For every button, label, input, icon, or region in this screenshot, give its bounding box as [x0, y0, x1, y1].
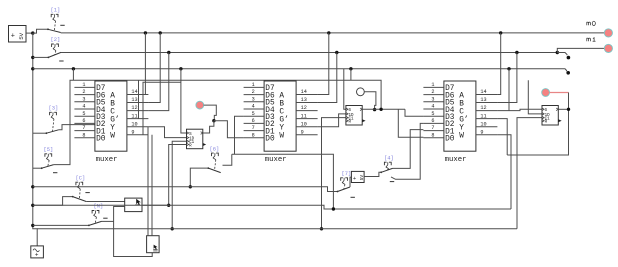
bus control-187: [33, 187, 338, 192]
node LED2-FF2Q: [373, 108, 376, 111]
wire B3 stub to B4: [72, 69, 74, 80]
wire FF4 pin2 to loop: [114, 207, 153, 257]
svg-text:D0: D0: [445, 136, 455, 144]
wire FF2 C1 from clock: [322, 118, 346, 229]
wire mux2 Y to FF2 1D: [318, 114, 346, 127]
svg-text:[4]: [4]: [384, 155, 394, 161]
wire battery V1 output: [26, 32, 33, 34]
svg-text:7: 7: [431, 125, 434, 131]
wire mux3 B to B2: [497, 53, 517, 103]
D-latch FF1: [187, 129, 207, 149]
svg-text:C: C: [279, 108, 284, 116]
node B3 open contact: [566, 71, 570, 75]
node trunk-bus187: [31, 185, 34, 188]
switch [N]: [88, 204, 108, 227]
svg-text:[6]: [6]: [210, 146, 220, 152]
bus W output: [33, 205, 511, 209]
node LED1-FF1Q: [212, 119, 215, 122]
node B2-m1 tap: [556, 51, 559, 54]
node Wbus-jog: [332, 207, 335, 210]
node B2-mux3B: [515, 51, 518, 54]
wire switch3 to mux1 D2: [59, 125, 95, 130]
node B3-mux3C: [507, 67, 510, 70]
multiplexer U1 (muxer): [74, 81, 148, 164]
svg-text:4: 4: [252, 104, 255, 110]
bus B2: [61, 52, 557, 54]
svg-text:Y: Y: [279, 125, 284, 133]
switch [5]: [41, 147, 58, 173]
node trunk-switch2: [31, 56, 34, 59]
wire FF4 output to W-bus: [142, 204, 169, 206]
svg-text:[C]: [C]: [76, 175, 86, 181]
wire FF2 Q to mux3 D0: [398, 109, 423, 137]
svg-text:11: 11: [301, 113, 307, 119]
multiplexer U3 (muxer): [423, 81, 497, 164]
node B3-x351: [349, 67, 352, 70]
svg-text:W: W: [279, 133, 284, 141]
node clock-FF2: [320, 227, 323, 230]
svg-text:5: 5: [431, 111, 434, 117]
wire mux3 A to B1: [497, 33, 500, 95]
svg-text:D0: D0: [96, 136, 106, 144]
node B3-FF1S: [179, 67, 182, 70]
svg-text:W: W: [459, 133, 464, 141]
svg-text:8: 8: [82, 132, 85, 138]
switch [C]: [72, 175, 90, 201]
battery V2 +5V: [351, 171, 364, 182]
svg-text:3: 3: [82, 96, 85, 102]
svg-text:5: 5: [82, 111, 85, 117]
svg-text:9: 9: [480, 129, 483, 135]
svg-text:B: B: [279, 100, 284, 108]
svg-text:B: B: [110, 100, 115, 108]
wire switch1 input jog: [33, 29, 48, 33]
wire mux1 G' from B4: [138, 80, 140, 118]
wire battery V2 to switch4: [364, 172, 381, 176]
svg-text:[2]: [2]: [51, 37, 61, 43]
wire mux2 D3 riser: [235, 116, 244, 154]
svg-text:C: C: [459, 108, 464, 116]
svg-text:+: +: [11, 32, 15, 40]
svg-text:1: 1: [252, 82, 255, 88]
LED probe LED2 (off): [357, 88, 365, 96]
svg-text:2: 2: [82, 89, 85, 95]
wire mux3 C to FF3 S: [497, 109, 542, 110]
node V1 junction: [31, 31, 34, 34]
node FF3Q: [567, 108, 570, 111]
svg-text:11: 11: [480, 113, 486, 119]
svg-text:W: W: [110, 133, 115, 141]
svg-text:5V: 5V: [359, 175, 365, 181]
node B1-mux1A: [144, 31, 147, 34]
LED probe LED1 (on): [196, 101, 204, 109]
svg-text:muxer: muxer: [96, 156, 118, 164]
wire FF3 1D riser: [528, 80, 542, 114]
svg-text:11: 11: [131, 113, 137, 119]
bus clock: [37, 228, 517, 230]
wire LED1 to FF1 Q node: [204, 105, 217, 121]
svg-text:2: 2: [431, 89, 434, 95]
svg-text:Y: Y: [110, 125, 115, 133]
node bus187-switch6: [189, 185, 192, 188]
output pin m0: [604, 29, 612, 37]
svg-text:10: 10: [131, 121, 137, 127]
open switch m1 contact: [557, 53, 567, 56]
wire mux1 Y to FF5: [147, 127, 149, 236]
svg-text:+: +: [35, 252, 39, 259]
svg-text:A: A: [459, 92, 464, 100]
clock source CLK: [31, 246, 44, 259]
svg-text:1: 1: [431, 82, 434, 88]
wire switch3 input: [33, 132, 47, 134]
wire FF2 Q line: [362, 108, 405, 110]
svg-text:10: 10: [480, 121, 486, 127]
svg-text:8: 8: [431, 132, 434, 138]
wire LED3 to FF3 (high): [550, 92, 569, 94]
wire mux3 D3 tap: [405, 109, 423, 116]
wire mux1 B to B1: [148, 33, 160, 103]
node trunk-bus205: [31, 204, 34, 207]
svg-text:3: 3: [431, 96, 434, 102]
svg-text:4: 4: [82, 104, 85, 110]
svg-text:13: 13: [131, 97, 137, 103]
switch [2]: [48, 37, 64, 61]
node trunk-bus225: [31, 224, 34, 227]
svg-text:muxer: muxer: [445, 156, 467, 164]
wire switch6 throw riser: [223, 154, 232, 165]
wire switch C to FF4: [86, 201, 125, 203]
svg-text:12: 12: [301, 105, 307, 111]
switch [7]: [337, 171, 355, 197]
wire mux3 C riser to B3: [508, 69, 510, 111]
wire switch7 to battery V2: [350, 177, 351, 187]
bus B1 (m0 select): [61, 32, 605, 34]
wire FF2 S from B3: [344, 69, 346, 110]
svg-text:3: 3: [252, 96, 255, 102]
wire FF3 C1 from clock: [517, 118, 542, 229]
svg-text:5V: 5V: [18, 32, 25, 39]
wire FF1 S from B3: [181, 69, 187, 133]
svg-text:12: 12: [480, 105, 486, 111]
svg-text:13: 13: [480, 97, 486, 103]
wire FF3 Q vertical: [507, 93, 568, 156]
node clock-FF1: [171, 227, 174, 230]
svg-text:[1]: [1]: [51, 8, 61, 14]
label m1: [587, 38, 596, 42]
svg-text:A: A: [279, 92, 284, 100]
wire mux2 B to B2: [318, 53, 337, 103]
node m1 contact end: [567, 56, 571, 60]
switch [3]: [46, 106, 59, 135]
svg-text:14: 14: [480, 89, 486, 95]
svg-text:G’: G’: [110, 116, 119, 124]
svg-text:7: 7: [82, 125, 85, 131]
battery V1 +5V: [9, 26, 27, 43]
switch [6]: [207, 146, 220, 172]
svg-text:B: B: [459, 100, 464, 108]
svg-text:7: 7: [252, 125, 255, 131]
D-latch FF4: [125, 198, 142, 212]
svg-text:10: 10: [301, 121, 307, 127]
svg-text:9: 9: [131, 129, 134, 135]
svg-text:12: 12: [131, 105, 137, 111]
svg-text:[3]: [3]: [49, 106, 59, 112]
svg-text:1: 1: [82, 82, 85, 88]
node B1-mux3A: [499, 31, 502, 34]
svg-text:4: 4: [431, 104, 434, 110]
node B2-mux1C: [167, 51, 170, 54]
switch [4]: [380, 155, 394, 181]
D-latch FF5: [147, 236, 160, 253]
wire LED2 to FF2 Q node: [364, 92, 376, 110]
wire B3 stub2 to B4: [350, 69, 352, 80]
node B1-mux1B: [159, 31, 162, 34]
svg-text:9: 9: [301, 129, 304, 135]
wire switch6 input riser: [190, 168, 208, 187]
bus B4 strobe: [54, 80, 381, 164]
switch [1]: [47, 8, 65, 33]
svg-text:A: A: [110, 92, 115, 100]
D-latch FF3: [542, 106, 562, 126]
LED probe LED3 (on): [542, 89, 550, 97]
wire FF1 R from W-bus: [169, 145, 187, 206]
svg-text:8: 8: [252, 132, 255, 138]
node trunk-bus3: [31, 67, 34, 70]
svg-text:G’: G’: [459, 116, 468, 124]
wire FF3 Q: [558, 108, 568, 110]
wire net-154 line: [232, 154, 334, 209]
svg-text:[5]: [5]: [44, 147, 54, 153]
wire switchN out: [102, 220, 114, 222]
svg-text:D0: D0: [265, 136, 275, 144]
svg-text:2: 2: [252, 89, 255, 95]
wire mux3 G' riser: [497, 119, 507, 155]
wire mux1 W to FF5: [151, 135, 153, 236]
svg-text:13: 13: [301, 97, 307, 103]
svg-text:Y: Y: [459, 125, 464, 133]
svg-text:6: 6: [82, 118, 85, 124]
wire mux1 C to B2: [148, 53, 168, 111]
wire FF1 C1 from clock: [172, 141, 186, 229]
wire m1: [557, 48, 604, 52]
wire switchN input: [33, 224, 89, 226]
label m0: [587, 21, 596, 25]
svg-text:14: 14: [301, 89, 307, 95]
wire mux1 Y to FF1 1D: [148, 127, 186, 138]
wire switch4 throwB to mux3 D2: [391, 123, 423, 179]
svg-text:6: 6: [252, 118, 255, 124]
wire FF1 Q riser: [203, 121, 214, 133]
wire mux2 A to B1: [318, 33, 329, 95]
node Wbus-FF1R: [167, 204, 170, 207]
D-latch FF2: [346, 106, 366, 126]
node B4-FF2Q: [379, 108, 382, 111]
bus B3: [33, 69, 567, 72]
wire FF1 Q to mux2 D0: [214, 121, 244, 138]
svg-text:+: +: [353, 175, 356, 182]
node B3-x73: [72, 67, 75, 70]
output pin m1: [604, 44, 612, 52]
svg-text:[N]: [N]: [94, 204, 104, 210]
wire mux1 A to B1: [127, 33, 145, 95]
svg-text:C: C: [110, 108, 115, 116]
svg-text:6: 6: [431, 118, 434, 124]
wire mux1 W line: [143, 82, 181, 135]
node B1-mux2A: [327, 31, 330, 34]
svg-text:5: 5: [252, 111, 255, 117]
wire switch4 throwA to mux3 D1: [393, 130, 424, 169]
wire mux3 W to W-bus: [497, 135, 511, 209]
svg-text:G’: G’: [279, 116, 288, 124]
wire bus205 to switch C riser: [33, 197, 73, 206]
multiplexer U2 (muxer): [244, 81, 318, 164]
wire +5V trunk vertical: [33, 33, 37, 246]
node B2-mux2B: [335, 51, 338, 54]
wire switch2 input: [33, 56, 49, 58]
svg-text:[7]: [7]: [342, 171, 352, 177]
wire switch5 input: [33, 167, 42, 169]
svg-text:muxer: muxer: [265, 156, 287, 164]
